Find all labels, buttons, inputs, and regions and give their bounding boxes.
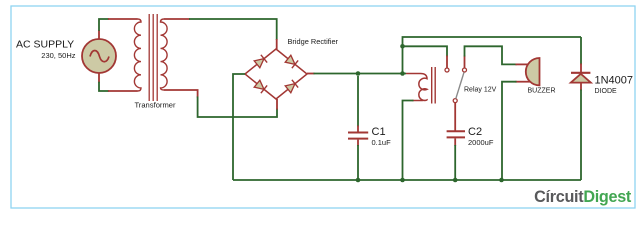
wire common to C2 <box>454 103 456 131</box>
svg-text:C2: C2 <box>468 126 482 138</box>
node junction relay feed <box>400 71 405 76</box>
wire bottom rail <box>233 179 581 181</box>
relay switch right contact <box>463 68 467 72</box>
capacitor C2 <box>447 131 465 180</box>
svg-text:1N4007: 1N4007 <box>595 75 634 87</box>
AC source V1 <box>82 39 116 73</box>
svg-text:0.1uF: 0.1uF <box>372 138 392 147</box>
relay switch common contact <box>453 99 457 103</box>
node rail junction relay <box>400 178 405 183</box>
svg-text:BUZZER: BUZZER <box>528 88 556 95</box>
wire contacts rail left contact <box>403 46 448 68</box>
node junction C1 top <box>356 71 361 76</box>
bridge rectifier BR1 <box>245 49 307 99</box>
svg-text:230, 50Hz: 230, 50Hz <box>41 51 75 60</box>
transformer TR1 secondary winding <box>161 19 168 90</box>
relay switch arm <box>456 72 464 98</box>
diode D3 bottom-left <box>254 80 267 93</box>
wire secondary top to bridge top <box>164 19 277 49</box>
transformer TR1 primary winding <box>134 19 141 91</box>
svg-text:DIODE: DIODE <box>595 88 618 95</box>
buzzer BZ1 <box>526 58 540 85</box>
diode D4 bottom-right <box>285 80 298 93</box>
wire junction up to rails <box>403 37 582 74</box>
node junction contacts rail <box>400 44 405 49</box>
svg-text:2000uF: 2000uF <box>468 138 494 147</box>
wire AC top to transformer primary <box>99 19 138 39</box>
relay RL1 coil <box>403 74 428 181</box>
svg-text:C1: C1 <box>372 126 386 138</box>
transformer core <box>149 14 157 101</box>
bridge edges <box>245 49 307 99</box>
svg-text:Relay 12V: Relay 12V <box>464 87 497 94</box>
wire bridge right vertex positive <box>307 73 406 75</box>
relay switch left contact <box>445 68 449 72</box>
node rail junction buzzer <box>499 178 504 183</box>
wire secondary bottom to bridge bottom <box>164 90 277 117</box>
node rail junction C1 <box>356 178 361 183</box>
diode D5 1N4007 <box>571 37 591 180</box>
wire buzzer bottom to rail <box>502 82 530 180</box>
capacitor C1 <box>348 76 368 180</box>
wire right contact to buzzer top <box>465 46 529 68</box>
diode D1 top-left <box>254 55 267 68</box>
svg-text:Transformer: Transformer <box>134 101 176 110</box>
diode D2 top-right <box>285 55 298 68</box>
svg-text:AC SUPPLY: AC SUPPLY <box>16 39 74 51</box>
wire AC bottom to transformer primary <box>99 73 138 91</box>
svg-text:Bridge Rectifier: Bridge Rectifier <box>288 37 339 46</box>
svg-text:CírcuitDigest: CírcuitDigest <box>534 188 632 206</box>
node rail junction C2 <box>453 178 458 183</box>
relay core bars <box>432 67 436 104</box>
wire bridge left vertex to negative rail <box>233 74 245 180</box>
